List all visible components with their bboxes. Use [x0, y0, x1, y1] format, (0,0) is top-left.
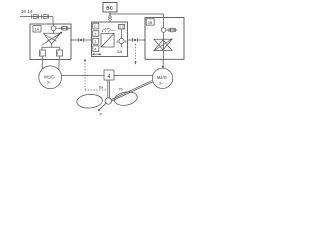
- label box 3B: [146, 19, 154, 25]
- svg-text:3~: 3~: [47, 80, 52, 84]
- motor leads M1: [41, 56, 43, 69]
- wire drop into converter box: [52, 17, 54, 25]
- propeller blade left: [76, 94, 102, 109]
- io box 3: [93, 38, 99, 44]
- machine symbol in box 3B: [154, 39, 173, 52]
- box 3B: [145, 18, 184, 60]
- breaker 14: [42, 14, 49, 18]
- svg-text:14: 14: [28, 9, 33, 14]
- node circle in box 3B: [161, 28, 166, 33]
- svg-text:1A: 1A: [34, 27, 39, 32]
- svg-text:4: 4: [94, 48, 96, 52]
- connector 1A-2: [78, 38, 84, 42]
- wire 1A to 2: [71, 39, 92, 41]
- svg-text:P: P: [100, 113, 103, 117]
- svg-text:7b: 7b: [119, 88, 123, 92]
- breaker 16: [32, 14, 39, 18]
- filter block left: [40, 50, 46, 56]
- svg-text:パワー: パワー: [102, 28, 117, 34]
- power management box 2: [92, 22, 128, 57]
- svg-text:C: C: [94, 25, 97, 29]
- propeller shaft vertical: [107, 80, 109, 100]
- propeller blade right: [113, 90, 138, 107]
- fuse in box 3B: [166, 29, 178, 31]
- wire inverter to filter: [51, 44, 53, 48]
- svg-text:3B: 3B: [148, 20, 153, 25]
- io box 2: [93, 31, 99, 37]
- svg-text:2: 2: [94, 33, 96, 37]
- svg-text:8: 8: [117, 40, 119, 44]
- svg-text:M1/G: M1/G: [44, 74, 55, 79]
- filter block right: [57, 50, 63, 56]
- dcdc converter square: [101, 34, 114, 48]
- svg-text:6a: 6a: [99, 86, 104, 90]
- io box C: [93, 23, 99, 29]
- wire gearbox to M2: [114, 74, 153, 76]
- wire BC down: [109, 12, 111, 15]
- fuse in box 1A: [61, 26, 63, 30]
- converter box 1A: [30, 24, 71, 60]
- dashed feedback right: [135, 44, 137, 63]
- pitch arrow: [99, 103, 107, 111]
- svg-text:M2/G: M2/G: [157, 75, 167, 80]
- dashed feedback left: [85, 61, 107, 91]
- connector 2-3B: [132, 38, 137, 42]
- gearbox 4: [104, 70, 114, 80]
- sensor chain in box 2: [119, 25, 125, 30]
- wire grid feeder: [20, 16, 53, 18]
- motor M1/G: [39, 66, 62, 89]
- wire to fuse in box 1A: [56, 27, 71, 29]
- wire BC to box 3B: [110, 14, 164, 18]
- BC box: [103, 3, 117, 13]
- label box 1A: [33, 26, 41, 33]
- svg-text:3: 3: [94, 40, 96, 44]
- propeller shaft diagonal: [110, 81, 152, 100]
- connector on BC wire: [108, 15, 112, 20]
- wire M1 to gearbox: [61, 74, 104, 76]
- io box 4: [93, 46, 99, 52]
- propeller hub: [105, 98, 111, 104]
- wire 2 to 3B: [128, 39, 146, 41]
- motor M2/G: [152, 68, 172, 88]
- svg-text:5A: 5A: [117, 49, 122, 54]
- svg-text:4: 4: [108, 74, 111, 80]
- svg-text:16: 16: [21, 9, 26, 14]
- node circle in box 1A: [51, 26, 56, 31]
- lead 3B to motor: [162, 59, 164, 68]
- svg-text:9: 9: [125, 40, 127, 44]
- mode arrow: [93, 53, 101, 55]
- inverter symbol in box 1A: [42, 32, 63, 46]
- svg-text:BC: BC: [106, 6, 113, 11]
